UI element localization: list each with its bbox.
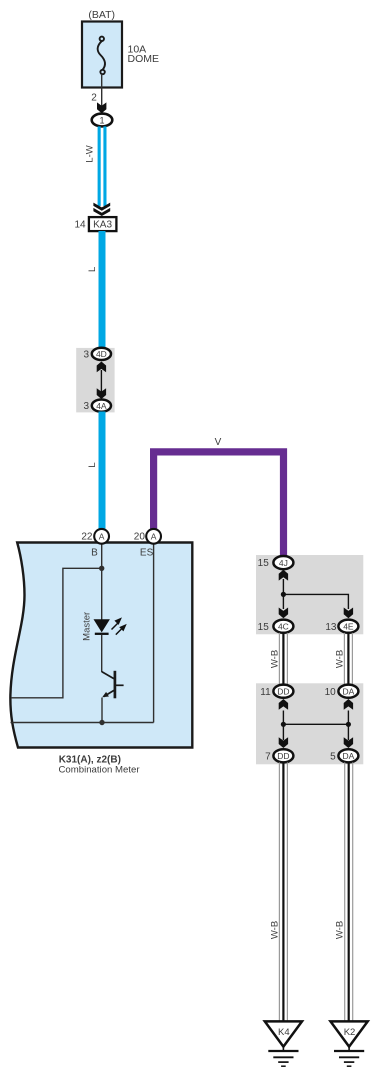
svg-text:4C: 4C xyxy=(278,622,289,632)
arrow into connector 1 xyxy=(97,102,106,113)
svg-text:B: B xyxy=(91,548,98,559)
arrows up below DD/DA xyxy=(279,699,288,710)
relay block gray (4J/4C/4E) xyxy=(256,555,363,634)
svg-text:22: 22 xyxy=(81,532,93,543)
svg-text:W-B: W-B xyxy=(270,921,281,939)
junction block J4 (gray) xyxy=(76,348,114,413)
connector 4A xyxy=(92,400,111,412)
ground triangle K4 xyxy=(265,1021,302,1046)
svg-text:K2: K2 xyxy=(344,1027,356,1038)
svg-text:3: 3 xyxy=(83,349,89,360)
wire emitter down xyxy=(101,698,103,723)
svg-text:15: 15 xyxy=(258,558,270,569)
svg-text:20: 20 xyxy=(134,532,146,543)
ground symbol K4 xyxy=(268,1047,298,1067)
connector DD pin 11 xyxy=(273,685,293,698)
wire W-B long right xyxy=(345,762,353,1021)
combination meter box K31 xyxy=(10,543,192,748)
wire LED to transistor xyxy=(101,635,103,673)
ground symbol K2 xyxy=(334,1047,364,1067)
svg-text:V: V xyxy=(215,437,222,448)
fuse element symbol xyxy=(98,37,105,75)
svg-text:10: 10 xyxy=(325,687,337,698)
svg-text:ES: ES xyxy=(140,548,154,559)
connector 4C xyxy=(273,620,293,633)
svg-text:15: 15 xyxy=(258,622,270,633)
svg-text:W-B: W-B xyxy=(335,650,346,668)
junction dot bottom xyxy=(99,720,104,725)
svg-text:4J: 4J xyxy=(279,558,288,568)
svg-text:14: 14 xyxy=(74,219,86,230)
wire bottom horizontal xyxy=(11,722,154,724)
connector KA3 xyxy=(89,217,117,231)
arrow down into 4C xyxy=(279,608,288,619)
connector DA pin 10 xyxy=(338,685,358,698)
connector 1 oval xyxy=(92,114,113,127)
svg-text:L-W: L-W xyxy=(84,145,95,162)
connector 4D xyxy=(92,348,111,360)
svg-text:A: A xyxy=(151,532,157,542)
connector 4E xyxy=(338,620,358,633)
double chevron into KA3 xyxy=(93,203,110,216)
wire L-W (blue/white striped) xyxy=(98,126,107,206)
wire from fuse pin 2 xyxy=(101,74,103,106)
arrows down into DD7/DA5 xyxy=(279,737,288,748)
svg-text:3: 3 xyxy=(83,401,89,412)
wire ES internal xyxy=(153,544,155,723)
transistor Q (meter internal) xyxy=(102,671,124,699)
connector DD pin 7 xyxy=(273,749,293,762)
wire branch left xyxy=(11,568,102,698)
right column: arrow up below 4J xyxy=(279,570,288,581)
wire W-B (4E to DA) xyxy=(344,633,352,685)
wire W-B (4C to DD) xyxy=(279,633,287,685)
svg-text:(BAT): (BAT) xyxy=(88,9,115,21)
svg-text:K4: K4 xyxy=(278,1027,290,1038)
svg-text:4E: 4E xyxy=(343,622,354,632)
svg-text:KA3: KA3 xyxy=(93,220,112,231)
connector A pin 22 xyxy=(94,529,109,544)
wire L upper xyxy=(99,231,106,349)
wire L lower xyxy=(99,412,106,530)
svg-text:13: 13 xyxy=(325,622,337,633)
svg-text:A: A xyxy=(99,532,105,542)
wire V (violet) xyxy=(154,452,284,558)
svg-text:4A: 4A xyxy=(96,401,107,411)
junction dot 4J xyxy=(281,592,286,597)
svg-text:5: 5 xyxy=(330,751,336,762)
arrow down into 4E xyxy=(344,608,353,619)
arrows between 4D and 4A xyxy=(100,370,102,392)
svg-text:W-B: W-B xyxy=(270,650,281,668)
connector A pin 20 xyxy=(146,529,161,544)
junction block gray (DD/DA) xyxy=(256,683,363,764)
junction dot B xyxy=(99,566,104,571)
svg-text:DD: DD xyxy=(277,751,289,761)
svg-text:DA: DA xyxy=(342,687,354,697)
svg-text:2: 2 xyxy=(91,93,97,104)
svg-text:W-B: W-B xyxy=(335,921,346,939)
svg-text:DA: DA xyxy=(342,751,354,761)
LED light arrows xyxy=(112,619,126,635)
svg-text:DOME: DOME xyxy=(128,53,160,65)
svg-text:11: 11 xyxy=(260,687,271,698)
connector DA pin 5 xyxy=(338,749,358,762)
svg-text:Combination Meter: Combination Meter xyxy=(59,765,141,776)
svg-text:Master: Master xyxy=(82,612,93,641)
svg-text:DD: DD xyxy=(277,687,289,697)
wire W-B long left xyxy=(279,762,287,1021)
connector 4J xyxy=(273,556,293,569)
wire branch to 4E xyxy=(283,594,348,609)
wire between dots xyxy=(283,723,348,725)
junction dots DD/DA xyxy=(281,722,286,727)
svg-text:4D: 4D xyxy=(96,349,107,359)
ground triangle K2 xyxy=(331,1021,368,1046)
svg-text:L: L xyxy=(87,267,98,272)
transistor emitter arrowhead xyxy=(102,692,109,697)
svg-text:7: 7 xyxy=(265,751,271,762)
wire B internal xyxy=(101,544,103,620)
svg-text:L: L xyxy=(87,462,98,467)
svg-text:1: 1 xyxy=(99,116,104,126)
LED Master xyxy=(94,619,110,632)
fuse box 10A DOME xyxy=(82,22,122,88)
